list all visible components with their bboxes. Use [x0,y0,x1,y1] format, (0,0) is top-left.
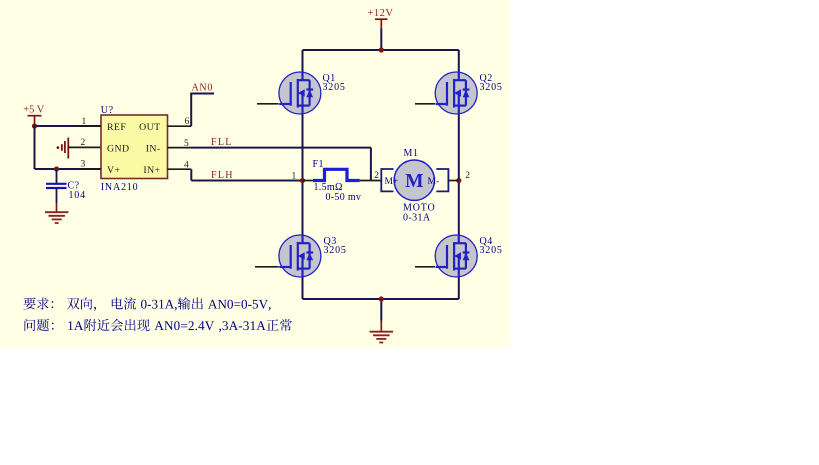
transistor Q1 [279,72,321,114]
svg-text:0-50 mv: 0-50 mv [326,192,362,203]
wire FLL drop [370,148,372,181]
op-amp U1 INA210 [101,115,168,179]
node 2 junction right [456,178,461,183]
svg-text:2: 2 [81,138,86,148]
wire +5V down [34,125,36,169]
svg-text:2: 2 [374,171,379,181]
transistor Q4 [435,235,477,277]
wire node1 to F1 [303,180,314,182]
svg-text:FLH: FLH [211,170,234,181]
wire bottom rail [303,298,459,300]
wire F1 to motor [360,180,382,182]
svg-text:3205: 3205 [323,82,346,93]
svg-text:M-: M- [428,177,440,187]
svg-text:V+: V+ [107,165,120,176]
node 1 junction [300,178,305,183]
wire FLL [191,147,371,149]
gate wire Q2 [415,103,435,105]
pin 5 stub [168,147,192,149]
svg-text:IN-: IN- [146,144,161,155]
wire AN0 [190,93,214,95]
svg-text:+12V: +12V [368,8,394,19]
wire pin2 [68,146,101,148]
wire +5V to pin1 [35,125,102,127]
note line 1 [24,297,271,311]
svg-text:+5 V: +5 V [23,105,44,116]
junction C [54,166,59,171]
wire AN0 riser [190,94,192,127]
svg-text:IN+: IN+ [143,165,160,176]
motor M1 terminal M+ [381,169,393,191]
wire to pin3 [35,168,102,170]
wire +12V stem [380,29,382,51]
svg-text:1: 1 [292,171,297,181]
wire right rail [458,50,460,299]
junction +5V [32,123,37,128]
svg-text:104: 104 [69,190,86,201]
schematic sheet [0,0,510,348]
svg-text:3: 3 [81,160,86,170]
svg-text:3205: 3205 [324,245,347,256]
pin 1 stub [76,125,101,127]
wire motor to right rail [448,180,458,182]
svg-text:REF: REF [107,122,126,133]
svg-text:GND: GND [107,144,129,155]
svg-text:MOTO: MOTO [403,202,435,213]
power ground GND pin2 [57,138,69,159]
capacitor C? [46,169,67,212]
gate wire Q4 [415,266,435,268]
wire ground stem [380,299,382,321]
svg-text:OUT: OUT [139,122,160,133]
junction +12V [379,47,384,52]
junction ground [379,296,384,301]
resistor F1 shunt [313,169,360,180]
ground below C [45,212,68,223]
pin 4 stub [168,168,192,170]
transistor Q2 [435,72,477,114]
svg-text:3205: 3205 [480,82,503,93]
pin 6 stub [168,125,192,127]
pin 3 stub [76,168,101,170]
svg-text:0-31A: 0-31A [403,213,431,224]
power +12V [368,8,394,29]
svg-text:6: 6 [185,117,190,127]
svg-text:U?: U? [101,105,114,116]
motor M1 terminal M- [436,169,448,191]
gate wire Q3 [255,266,279,268]
svg-text:2: 2 [465,171,470,181]
svg-text:3205: 3205 [480,245,503,256]
wire left rail [302,50,304,299]
svg-text:AN0: AN0 [192,83,214,94]
wire FLH [191,180,302,182]
ground symbol bottom [380,321,382,332]
wire FLH drop [190,169,192,180]
svg-text:M+: M+ [385,177,399,187]
power +5V [23,105,44,127]
svg-text:M: M [405,171,423,192]
note line 2 [25,319,292,332]
svg-text:F1: F1 [313,159,325,170]
gate wire Q1 [257,103,279,105]
svg-text:M1: M1 [404,148,419,159]
svg-text:FLL: FLL [211,137,233,148]
motor M1 body [394,160,434,200]
wire top rail [303,49,459,51]
transistor Q3 [279,235,321,277]
svg-text:INA210: INA210 [101,182,139,193]
